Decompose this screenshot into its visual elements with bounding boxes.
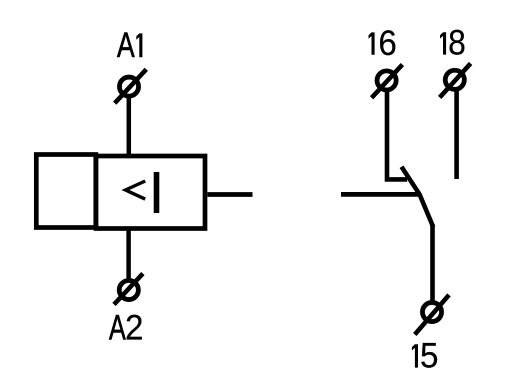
- terminal 16: [372, 65, 403, 98]
- wire 16 down with NC seat: [387, 91, 407, 179]
- svg-text:6: 6: [378, 24, 396, 63]
- svg-text:5: 5: [420, 337, 438, 376]
- terminal A2: [114, 274, 143, 305]
- terminal 18: [440, 63, 471, 97]
- wire 18 NO contact: [454, 90, 459, 179]
- coil box left section: [36, 155, 96, 228]
- svg-text:2: 2: [125, 309, 143, 348]
- mechanical link segment from coil: [208, 192, 253, 197]
- moving contact arm of changeover contact: [402, 167, 434, 227]
- label 18: [440, 32, 446, 54]
- mechanical link segment to contact: [341, 192, 419, 197]
- svg-text:8: 8: [448, 24, 466, 63]
- less-than symbol inside coil box: [126, 181, 146, 199]
- svg-text:A: A: [109, 308, 126, 347]
- wire coil box to A2: [126, 228, 131, 281]
- coil box right section U1: [96, 156, 205, 229]
- label 15: [412, 344, 418, 367]
- wire common to 15: [430, 225, 435, 303]
- terminal A1: [115, 69, 147, 103]
- svg-text:A: A: [117, 26, 135, 65]
- threshold bar inside coil box: [154, 172, 160, 213]
- label 16: [369, 32, 375, 54]
- wire A1 to coil box: [127, 95, 132, 156]
- terminal 15: [415, 295, 449, 335]
